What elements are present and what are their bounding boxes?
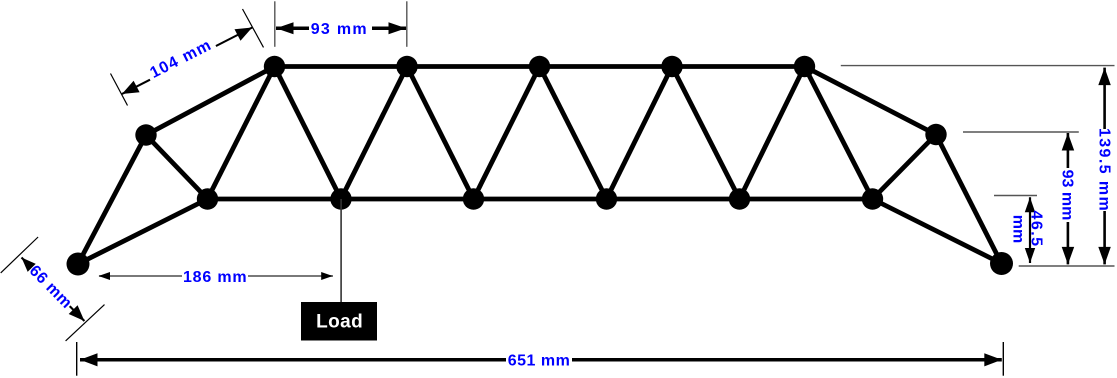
label 186 mm xyxy=(182,268,248,286)
node B6 xyxy=(862,188,883,209)
member end diagonal SL-PL xyxy=(78,135,146,264)
node B3 xyxy=(463,188,484,209)
member end diagonal PR-B6 xyxy=(873,199,1002,264)
label 46.5 mm line 1 xyxy=(1028,210,1045,247)
dimension line 66 mm xyxy=(22,258,85,322)
svg-text:66 mm: 66 mm xyxy=(26,262,76,312)
node B5 xyxy=(729,188,750,209)
node T1 xyxy=(264,56,285,77)
dimension tick upper-left (66 mm) xyxy=(1,237,38,273)
extension line support level (right) xyxy=(1019,265,1115,267)
arrowhead left 651 mm xyxy=(80,353,98,366)
arrowhead top 93 mm right xyxy=(1062,133,1075,151)
dimension line 93 mm right xyxy=(1067,133,1070,264)
dimension line 93 mm top xyxy=(276,27,406,31)
member end diagonal SL-B1 xyxy=(146,135,208,199)
node T2 xyxy=(396,56,417,77)
member end diagonal SR-PR xyxy=(936,135,1002,264)
arrowhead bottom 93 mm right xyxy=(1062,247,1075,265)
member diagonal T3-B3 xyxy=(474,67,540,200)
dimension extension tick right (651 mm) xyxy=(1002,342,1004,376)
member diagonal T4-B5 xyxy=(672,67,740,200)
svg-text:186 mm: 186 mm xyxy=(183,269,247,286)
dimension line 651 mm xyxy=(80,358,1002,362)
member diagonal T2-B3 xyxy=(407,67,474,200)
dimension tick lower-right (66 mm) xyxy=(66,305,105,341)
member top chord T4-T5 xyxy=(672,64,805,69)
node T3 xyxy=(529,56,550,77)
dimension extension line left (93 mm top) xyxy=(274,1,276,47)
member end diagonal SL-T1 xyxy=(146,67,275,136)
svg-text:651 mm: 651 mm xyxy=(508,353,571,370)
dimension tick lower-left (104 mm) xyxy=(111,74,128,106)
node T5 xyxy=(794,56,815,77)
label 66 mm xyxy=(25,261,76,312)
dimension line 46.5 mm xyxy=(1029,197,1031,263)
arrowhead left 186 mm xyxy=(99,272,111,280)
arrowhead top 139.5 mm xyxy=(1098,68,1111,86)
arrowhead bottom 139.5 mm xyxy=(1098,247,1111,265)
svg-text:139.5 mm: 139.5 mm xyxy=(1095,128,1112,212)
arrowhead right 186 mm xyxy=(321,272,333,280)
arrowhead lower-right 66 mm xyxy=(69,305,85,321)
arrowhead left 93 mm xyxy=(276,22,294,34)
arrowhead upper-left 66 mm xyxy=(22,258,38,274)
svg-text:Load: Load xyxy=(316,311,363,332)
member bottom chord B3-B4 xyxy=(474,197,607,202)
node B1 xyxy=(197,188,218,209)
member diagonal T1-B2 xyxy=(275,67,342,200)
svg-text:104 mm: 104 mm xyxy=(148,37,215,82)
member diagonal T4-B4 xyxy=(607,67,673,200)
arrowhead bottom 46.5 mm xyxy=(1025,248,1035,263)
extension line top chord level (right) xyxy=(841,65,1115,67)
node PL xyxy=(67,253,90,276)
member diagonal T5-B5 xyxy=(740,67,805,200)
label 93 mm right xyxy=(1059,168,1077,222)
label 651 mm xyxy=(506,351,572,370)
label 93 mm top xyxy=(309,20,372,39)
member bottom chord B5-B6 xyxy=(740,197,873,202)
member bottom chord B4-B5 xyxy=(607,197,740,202)
arrowhead top 46.5 mm xyxy=(1025,197,1035,212)
label 46.5 mm line 2 xyxy=(1010,215,1027,243)
node SL xyxy=(135,124,156,145)
member bottom chord B2-B3 xyxy=(341,197,474,202)
arrowhead right 651 mm xyxy=(984,353,1002,366)
dimension line 186 mm xyxy=(99,275,333,277)
dimension line 139.5 mm xyxy=(1103,68,1106,265)
load hanger line xyxy=(340,199,342,302)
extension line bottom chord level (right) xyxy=(994,195,1037,197)
dimension extension tick left (651 mm) xyxy=(76,342,78,376)
svg-text:mm: mm xyxy=(1010,215,1027,243)
label 139.5 mm xyxy=(1095,128,1113,212)
member diagonal T1-B1 xyxy=(208,67,275,200)
member end diagonal T5-SR xyxy=(805,67,937,135)
label 104 mm xyxy=(144,34,218,84)
svg-text:93 mm: 93 mm xyxy=(311,21,368,38)
member diagonal T2-B2 xyxy=(341,67,407,200)
node PR xyxy=(990,252,1013,275)
dimension line 104 mm xyxy=(122,28,252,95)
dimension extension line right (93 mm top) xyxy=(406,1,408,47)
member end diagonal SR-B6 xyxy=(873,135,937,200)
dimension tick upper-right (104 mm) xyxy=(243,9,264,47)
member top chord T3-T4 xyxy=(540,64,673,69)
node SR xyxy=(925,124,946,145)
member top chord T2-T3 xyxy=(407,64,540,69)
member diagonal T5-B6 xyxy=(805,67,873,200)
member diagonal T3-B4 xyxy=(540,67,607,200)
arrowhead upper-right 104 mm xyxy=(235,28,253,41)
node B4 xyxy=(596,188,617,209)
node B2 xyxy=(330,188,351,209)
member bottom chord B1-B2 xyxy=(208,197,342,202)
extension line shoulder level (right) xyxy=(963,131,1079,133)
node T4 xyxy=(661,56,682,77)
arrowhead lower-left 104 mm xyxy=(122,81,140,94)
svg-text:93 mm: 93 mm xyxy=(1059,170,1076,221)
member top chord T1-T2 xyxy=(275,64,408,69)
arrowhead right 93 mm xyxy=(389,22,407,34)
member end diagonal PL-B1 xyxy=(78,199,208,264)
svg-text:46.5: 46.5 xyxy=(1028,210,1045,247)
load box xyxy=(301,302,377,341)
